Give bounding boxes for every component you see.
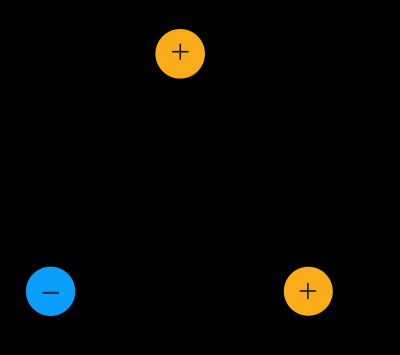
positive charge q1 (top) <box>155 29 205 79</box>
positive charge q3 (bottom right) <box>284 267 333 316</box>
negative charge q2 (bottom left) <box>26 267 75 316</box>
plus symbol q1 <box>172 44 188 60</box>
minus symbol q2 <box>43 292 59 294</box>
plus symbol q3 <box>300 283 316 299</box>
